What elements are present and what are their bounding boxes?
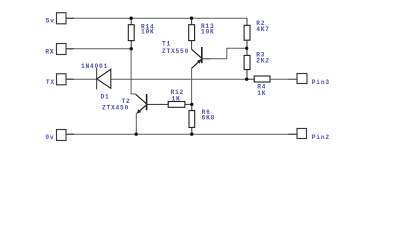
wire T1 base to R2/R3 node xyxy=(211,48,247,59)
svg-text:1N4001: 1N4001 xyxy=(81,63,108,70)
wire TX rail left xyxy=(66,78,97,80)
port Pin2 xyxy=(289,129,330,142)
node 0v/R6 xyxy=(190,133,193,136)
port RX xyxy=(45,44,74,56)
wire 5v rail xyxy=(66,17,247,19)
svg-text:ZTX550: ZTX550 xyxy=(162,48,189,55)
wire RX rail xyxy=(66,48,131,50)
wire RX to T2 collector xyxy=(131,49,136,94)
svg-text:5v: 5v xyxy=(46,17,55,24)
port 0v xyxy=(45,130,74,142)
transistor T1 xyxy=(162,41,211,69)
svg-text:T1: T1 xyxy=(162,41,171,48)
resistor R3 xyxy=(244,48,270,79)
resistor R13 xyxy=(189,18,215,49)
transistor T2 xyxy=(102,94,162,114)
wire T1 emitter down xyxy=(191,68,193,104)
node 5v/R14 xyxy=(130,17,133,20)
port Pin3 xyxy=(289,74,330,87)
svg-text:ZTX450: ZTX450 xyxy=(102,105,129,112)
wire TX rail right xyxy=(111,78,247,80)
svg-text:TX: TX xyxy=(46,79,55,86)
resistor R2 xyxy=(244,18,270,48)
svg-text:2K2: 2K2 xyxy=(256,58,270,65)
node R12/R6/T1 emitter xyxy=(190,103,193,106)
svg-text:1K: 1K xyxy=(172,95,181,102)
node RX/R14 xyxy=(130,47,133,50)
port 5v xyxy=(46,13,74,25)
svg-text:Pin2: Pin2 xyxy=(312,134,330,141)
svg-text:Pin3: Pin3 xyxy=(312,79,330,86)
node R2/R3/T1 base xyxy=(245,47,248,50)
port TX xyxy=(46,74,74,86)
svg-text:RX: RX xyxy=(45,49,54,56)
svg-text:0v: 0v xyxy=(45,134,54,141)
svg-text:10K: 10K xyxy=(201,29,215,36)
node 5v/R13 xyxy=(190,17,193,20)
svg-text:10K: 10K xyxy=(141,29,155,36)
diode D1 xyxy=(81,63,111,101)
resistor R4 xyxy=(247,76,289,97)
node 0v/T2 emitter xyxy=(135,133,138,136)
resistor R14 xyxy=(128,18,154,49)
wire T2 emitter down xyxy=(135,113,137,134)
resistor R6 xyxy=(189,104,215,134)
node R3/R4/TX xyxy=(245,78,248,81)
svg-text:1K: 1K xyxy=(257,90,266,97)
svg-text:D1: D1 xyxy=(101,94,110,101)
svg-text:4K7: 4K7 xyxy=(256,26,270,33)
svg-text:6K8: 6K8 xyxy=(202,114,216,121)
wire 0v rail xyxy=(66,133,297,135)
resistor R12 xyxy=(161,89,192,107)
